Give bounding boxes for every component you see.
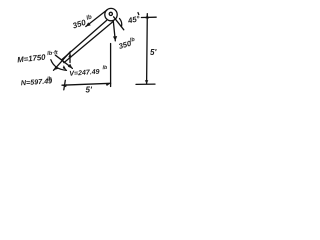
angle arc	[120, 19, 122, 27]
svg-text:5': 5'	[150, 48, 157, 57]
dimension 5 ft vertical line	[146, 14, 149, 84]
force 350 lb vertical arrow	[113, 21, 115, 41]
label 45 deg	[126, 14, 141, 26]
45 deg reference line	[114, 17, 124, 30]
label V = 247.49 lb	[69, 65, 109, 78]
internal normal force arrow N at cut	[54, 51, 71, 70]
svg-text:5': 5'	[86, 86, 93, 95]
top tick of vertical dimension	[141, 16, 156, 18]
label 350 lb vertical	[117, 37, 137, 51]
beam cut face	[62, 60, 64, 63]
label 350 lb axial	[71, 14, 94, 30]
extension line right of horizontal dimension	[110, 44, 112, 87]
beam member upper edge	[62, 21, 107, 60]
internal moment arc M at cut	[51, 60, 67, 71]
small up arrow at cut	[69, 54, 71, 63]
left extension tick of horizontal dimension	[64, 80, 66, 90]
pin inner circle	[109, 12, 112, 15]
beam member lower edge	[64, 22, 113, 63]
force 350 lb axial arrow	[86, 10, 107, 27]
internal shear force arrow V at cut	[55, 55, 72, 68]
svg-text:lb·ft: lb·ft	[47, 50, 59, 57]
label M = 1750 lb-ft	[17, 50, 60, 65]
bottom tick of vertical dimension	[136, 83, 155, 85]
label N = 597.49 lb	[20, 76, 53, 87]
dimension 5 ft horizontal line	[62, 83, 111, 85]
pin outer circle	[105, 8, 117, 20]
